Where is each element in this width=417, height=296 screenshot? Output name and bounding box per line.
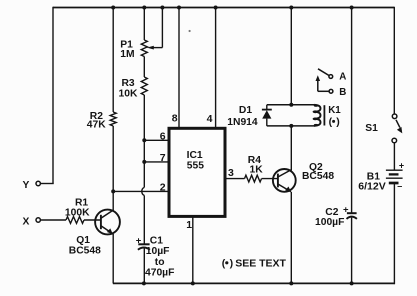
- junction R2 / pin2 node: [111, 189, 115, 193]
- junction P1 wiper top: [160, 6, 164, 10]
- svg-text:–: –: [397, 181, 402, 191]
- terminal Y: [36, 181, 40, 185]
- wire crossover hop at pin2: [142, 187, 145, 195]
- svg-text:3: 3: [228, 167, 234, 179]
- wire S1 to B1: [393, 143, 395, 171]
- wire Q2 collector up: [290, 126, 292, 170]
- transistor Q2 collector: [278, 170, 292, 177]
- svg-text:K1: K1: [328, 105, 341, 116]
- svg-text:R3: R3: [122, 78, 135, 89]
- wire pin 2: [113, 190, 169, 192]
- svg-text:4: 4: [207, 113, 213, 125]
- svg-text:10K: 10K: [119, 89, 138, 100]
- svg-text:): ): [336, 116, 340, 128]
- wire D1 top lead: [266, 105, 268, 110]
- relay K1 core bar: [323, 105, 325, 125]
- wire Y terminal stub: [40, 183, 54, 185]
- svg-text:BC548: BC548: [69, 245, 101, 256]
- wire X to R1: [40, 219, 66, 221]
- wire C1 to ground rail: [143, 248, 145, 283]
- potentiometer P1: [141, 40, 147, 57]
- note SEE TEXT: [222, 257, 287, 269]
- junction relay top rail: [289, 6, 293, 10]
- resistor R3: [141, 77, 147, 95]
- svg-text:(: (: [222, 257, 226, 269]
- wire pin 7: [144, 161, 169, 163]
- svg-text:470µF: 470µF: [145, 267, 174, 278]
- wire C2 branch upper: [351, 8, 353, 214]
- svg-text:8: 8: [172, 113, 178, 125]
- wire top +V rail: [53, 7, 394, 9]
- svg-text:6: 6: [160, 130, 166, 142]
- potentiometer P1 wiper: [147, 8, 163, 50]
- wire bottom ground rail: [113, 282, 395, 284]
- resistor R2: [110, 112, 116, 126]
- svg-text:+: +: [136, 235, 142, 246]
- switch S1 bottom contact: [392, 138, 397, 143]
- wire D1 bottom lead: [266, 119, 268, 126]
- junction C1 ground: [142, 281, 146, 285]
- svg-text:S1: S1: [365, 123, 378, 134]
- wire pin 1 to ground: [192, 216, 194, 283]
- wire B1 to ground rail: [393, 183, 395, 284]
- svg-text:+: +: [343, 204, 349, 215]
- wire C2 to ground rail: [351, 218, 353, 284]
- svg-text:Y: Y: [23, 180, 30, 191]
- junction Q2 emitter ground: [289, 281, 293, 285]
- junction pin7 node: [142, 160, 146, 164]
- terminal A: [329, 75, 333, 79]
- svg-text:BC548: BC548: [302, 171, 334, 182]
- transistor Q1 body: [95, 210, 120, 235]
- capacitor C1: [138, 244, 150, 250]
- svg-text:(: (: [329, 116, 333, 128]
- op-amp timer IC1 555 box: [169, 128, 225, 216]
- wire pin 4: [215, 8, 217, 129]
- wire Q2 emitter to ground: [290, 192, 292, 284]
- junction pin8 top: [177, 6, 181, 10]
- junction relay box top: [289, 103, 293, 107]
- wire relay branch: [290, 8, 292, 105]
- resistor R1: [66, 217, 84, 224]
- svg-text:1N914: 1N914: [227, 117, 258, 128]
- svg-text:B: B: [339, 87, 346, 98]
- transistor Q2 base bar: [277, 174, 279, 188]
- transistor Q2 emitter: [278, 184, 291, 192]
- svg-text:X: X: [23, 217, 30, 228]
- speckle artifact: [189, 30, 191, 32]
- wire pin 8: [178, 8, 180, 129]
- relay K1 coil box: [267, 104, 321, 126]
- svg-text:A: A: [339, 72, 346, 83]
- svg-text:+: +: [399, 160, 404, 170]
- svg-text:): ): [230, 257, 234, 269]
- svg-text:2: 2: [160, 181, 166, 193]
- switch S1 top contact: [392, 114, 397, 119]
- wire right branch to S1: [393, 7, 395, 114]
- transistor Q1 base bar: [100, 215, 102, 229]
- svg-text:to: to: [155, 257, 165, 268]
- svg-text:IC1: IC1: [187, 150, 203, 161]
- junction C2 ground: [350, 281, 354, 285]
- svg-text:1K: 1K: [250, 165, 264, 176]
- transistor Q1 collector: [101, 210, 114, 218]
- svg-text:1M: 1M: [120, 49, 134, 60]
- wire R2 branch upper: [112, 8, 114, 113]
- diode D1: [262, 110, 272, 119]
- svg-text:Q1: Q1: [76, 235, 90, 246]
- svg-text:6/12V: 6/12V: [358, 181, 385, 193]
- wire R2 to Q1 collector: [112, 126, 114, 210]
- svg-text:1: 1: [186, 219, 192, 231]
- junction relay box bottom: [289, 124, 293, 128]
- wire node to C1: [143, 195, 145, 244]
- wire Q1 emitter to ground rail: [112, 234, 114, 284]
- junction pin4 top: [214, 6, 218, 10]
- wire P1 branch top: [143, 8, 145, 41]
- wire Y branch vertical: [52, 7, 54, 184]
- wire pin 3 to R4: [225, 178, 245, 180]
- junction pin6 node: [142, 138, 146, 142]
- transistor Q1 emitter: [101, 226, 113, 234]
- label K1 note: [329, 116, 340, 128]
- wire pin 6: [144, 139, 169, 141]
- svg-text:7: 7: [160, 152, 166, 164]
- relay armature arrow: [316, 75, 330, 91]
- svg-text:100K: 100K: [65, 208, 90, 219]
- wire R4 to Q2 base: [262, 178, 279, 180]
- svg-text:D1: D1: [239, 105, 252, 116]
- battery B1: [386, 170, 403, 183]
- terminal X: [36, 218, 40, 222]
- wire P1 to R3: [143, 57, 145, 78]
- svg-text:47K: 47K: [87, 120, 106, 131]
- transistor Q2 body: [273, 169, 296, 192]
- junction P1 top: [142, 6, 146, 10]
- svg-text:SEE TEXT: SEE TEXT: [235, 257, 286, 269]
- terminal B: [329, 89, 333, 93]
- resistor R4: [245, 175, 262, 182]
- junction C2 top rail: [350, 6, 354, 10]
- svg-text:10µF: 10µF: [146, 246, 170, 257]
- junction pin1 ground: [191, 281, 195, 285]
- wire R3 down to pin6/7 node: [143, 95, 145, 187]
- relay contact arm A: [318, 69, 329, 76]
- wire R1 to Q1 base: [84, 219, 101, 221]
- capacitor C2: [347, 213, 357, 219]
- junction R2 top: [111, 6, 115, 10]
- svg-text:100µF: 100µF: [315, 217, 344, 228]
- svg-text:555: 555: [187, 161, 204, 172]
- switch S1 lever: [396, 120, 402, 134]
